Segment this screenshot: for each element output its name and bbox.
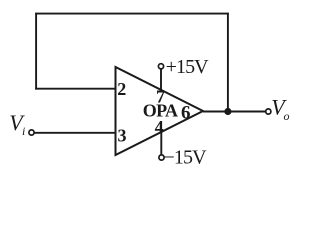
svg-text:+15V: +15V bbox=[166, 56, 210, 78]
wire feedback top horizontal bbox=[35, 13, 229, 15]
wire +15V supply to pin 7 bbox=[160, 69, 162, 92]
svg-text:i: i bbox=[22, 124, 25, 138]
terminal Vi circle bbox=[29, 130, 34, 135]
wire feedback right vertical bbox=[227, 13, 229, 112]
wire feedback bottom horizontal to pin 2 bbox=[35, 88, 115, 90]
terminal -15V circle bbox=[159, 155, 164, 160]
svg-text:−15V: −15V bbox=[164, 147, 208, 169]
wire input to pin 3 bbox=[35, 132, 116, 134]
terminal Vo circle bbox=[266, 109, 271, 114]
svg-text:3: 3 bbox=[118, 126, 127, 146]
node output junction bbox=[224, 108, 231, 115]
wire feedback left vertical bbox=[35, 13, 37, 90]
svg-text:2: 2 bbox=[117, 79, 126, 99]
terminal +15V circle bbox=[158, 64, 163, 69]
svg-text:o: o bbox=[284, 109, 290, 123]
svg-text:6: 6 bbox=[181, 103, 191, 124]
op-amp U1 OPA triangle bbox=[116, 67, 204, 155]
wire -15V supply to pin 4 bbox=[160, 132, 162, 155]
wire output bbox=[203, 111, 266, 113]
